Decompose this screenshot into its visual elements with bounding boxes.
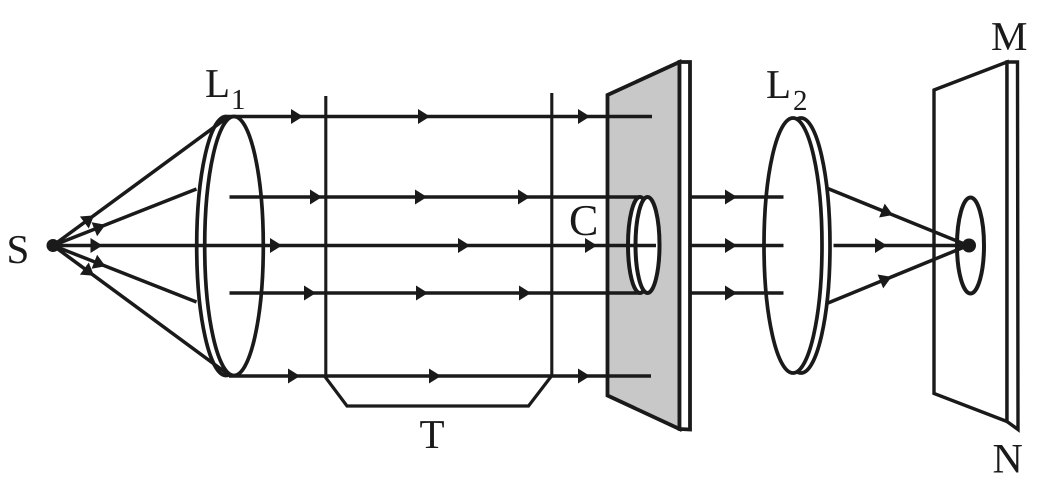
node S: point source dot — [47, 239, 60, 252]
lens L1: front surface — [205, 117, 264, 376]
wire: converging ray L2 to focus (upper) — [827, 188, 969, 246]
wire: ray plate to L2 (upper) — [690, 190, 784, 205]
tube T: right wall — [550, 93, 553, 376]
screen with aperture: gray plate front face — [608, 62, 680, 429]
wire: ray S to L1 upper surface — [53, 189, 197, 246]
screen MN: side face edge — [1007, 62, 1018, 430]
label S (source) — [9, 236, 27, 264]
node: focus point dot on screen MN — [962, 239, 976, 253]
lens L2: back surface — [772, 118, 830, 373]
wire: parallel ray 4, L1 to aperture bottom — [230, 286, 641, 301]
image spot on screen MN — [957, 198, 984, 294]
tube T: left wall — [324, 96, 327, 376]
wire: ray S to L1 lower surface — [53, 246, 197, 303]
wire: ray plate to L2 (axial) — [690, 238, 784, 253]
lens L2: front surface — [764, 118, 822, 373]
label L1 — [206, 70, 244, 109]
label N — [994, 445, 1022, 473]
screen MN: front face — [934, 62, 1007, 422]
aperture C: front rim ellipse — [636, 197, 660, 293]
wire: ray S to L1 bottom tip — [53, 246, 229, 376]
wire: ray plate to L2 (lower) — [690, 286, 784, 301]
wire: parallel ray 5 (bottom), L1 to plate — [229, 369, 651, 384]
label L2 — [767, 71, 806, 110]
wire: parallel ray 1 (top), L1 to plate — [228, 109, 652, 124]
wire: converging ray L2 to focus (axial) — [834, 238, 969, 253]
wire: axial ray 3, S through aperture C — [53, 238, 656, 253]
wire: ray S to L1 top tip — [53, 117, 228, 246]
wire: parallel ray 2, L1 to aperture top — [230, 190, 641, 205]
label C — [571, 206, 596, 236]
aperture C: back rim ellipse — [628, 197, 652, 293]
lens L1: back surface — [197, 117, 256, 376]
label M — [992, 23, 1026, 50]
screen with aperture: side face edge — [680, 62, 691, 430]
label T — [420, 421, 444, 448]
bracket for label T — [325, 376, 552, 406]
wire: converging ray L2 to focus (lower) — [828, 246, 968, 304]
